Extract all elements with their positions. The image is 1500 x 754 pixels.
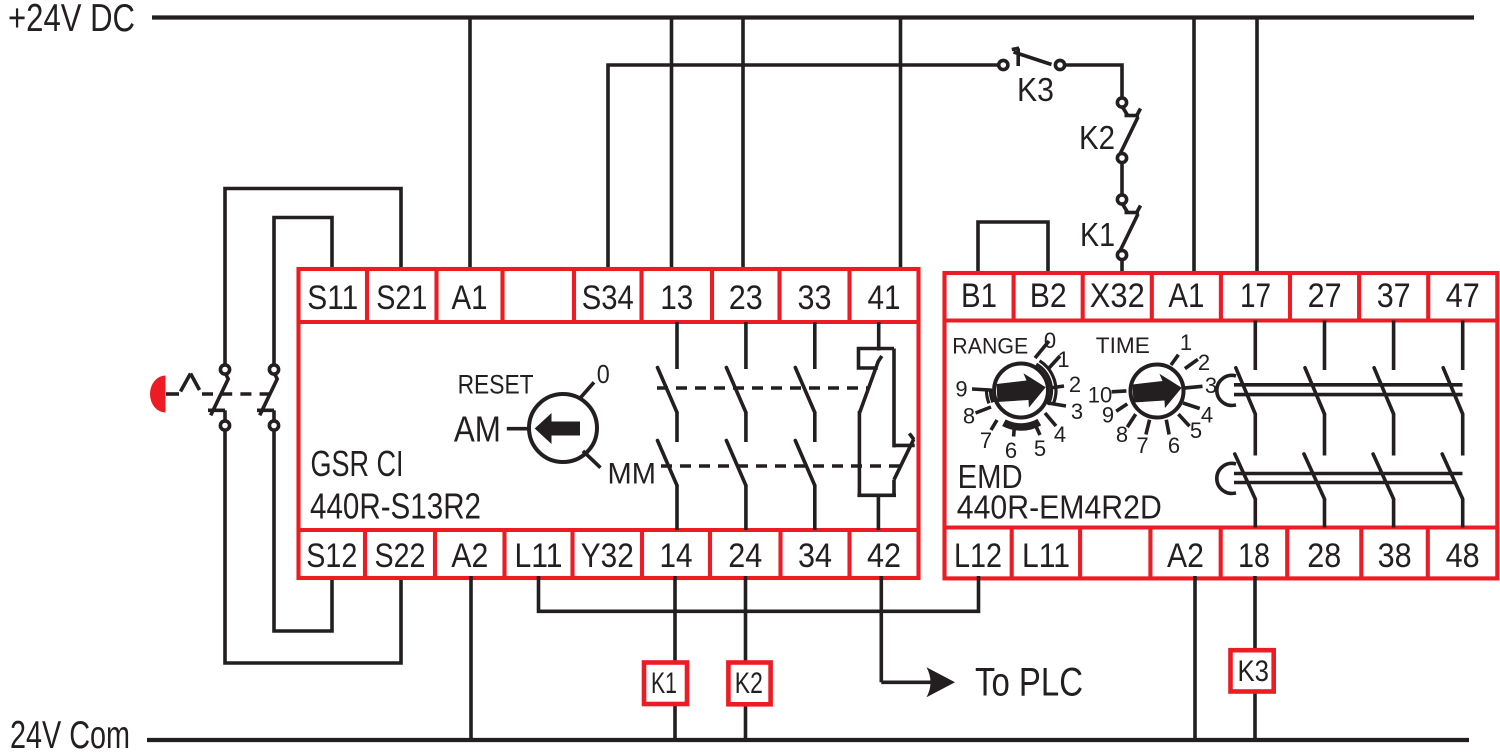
- svg-text:37: 37: [1377, 277, 1411, 315]
- svg-text:MM: MM: [608, 457, 656, 490]
- svg-text:9: 9: [955, 377, 967, 402]
- relay module GSR CI 440R-S13R2 outline: [299, 269, 919, 578]
- wire K2 to K1: [1120, 163, 1124, 196]
- contact 23-24 (NO safety output): [726, 322, 746, 530]
- svg-text:1: 1: [1057, 347, 1069, 372]
- svg-text:42: 42: [867, 537, 901, 575]
- svg-text:S21: S21: [376, 279, 427, 317]
- svg-text:X32: X32: [1090, 277, 1145, 315]
- svg-text:K3: K3: [1017, 71, 1054, 108]
- e-stop contact 2 (NC, channel 2): [257, 365, 279, 430]
- wire rail to GSR A1: [468, 18, 472, 272]
- wire To PLC arrow: [881, 667, 955, 697]
- svg-text:8: 8: [963, 404, 975, 429]
- svg-text:2: 2: [1069, 372, 1081, 397]
- svg-text:10: 10: [1088, 383, 1112, 408]
- svg-text:B2: B2: [1030, 277, 1067, 315]
- wire e-stop ch1 bottom to S22: [225, 430, 401, 663]
- svg-text:23: 23: [729, 279, 763, 317]
- svg-text:+24V DC: +24V DC: [8, 0, 135, 40]
- svg-text:GSR CI: GSR CI: [311, 443, 404, 484]
- svg-text:A1: A1: [1168, 277, 1204, 315]
- svg-text:34: 34: [798, 537, 832, 575]
- svg-text:L12: L12: [954, 537, 1002, 575]
- rotary switch RESET dial: [507, 382, 601, 467]
- svg-text:5: 5: [1190, 418, 1202, 443]
- wire K1 to X32: [1120, 260, 1124, 276]
- wire mechanical linkage row 1 (dashed): [657, 386, 869, 390]
- wire 24 to K2 coil: [744, 576, 748, 664]
- svg-text:13: 13: [660, 279, 693, 317]
- wire delay linkage row 1 (double line + arc): [1217, 375, 1463, 405]
- wire rail to EMD terminal 17: [1255, 18, 1259, 276]
- wire rail to EMD A1: [1192, 18, 1196, 276]
- contact 41-42 (NC aux, linked): [857, 322, 914, 530]
- svg-text:K1: K1: [1080, 216, 1115, 253]
- svg-text:RANGE: RANGE: [952, 334, 1028, 359]
- contact 47-48 (delayed NO output): [1442, 321, 1463, 528]
- wire delay linkage row 2 (double line + arc): [1217, 463, 1463, 493]
- svg-text:6: 6: [1168, 433, 1180, 458]
- e-stop contact 1 (NC, channel 1): [208, 365, 230, 430]
- rotary dial RANGE: [972, 341, 1066, 437]
- contact K3 (NC, aux of relay K3): [999, 48, 1065, 69]
- svg-text:24V Com: 24V Com: [10, 714, 130, 754]
- svg-text:S12: S12: [306, 537, 357, 575]
- svg-text:S34: S34: [582, 279, 634, 317]
- wire K3 to K2: [1065, 65, 1123, 98]
- svg-text:38: 38: [1378, 537, 1412, 575]
- contact 13-14 (NO safety output): [658, 322, 678, 530]
- wire 24V Com return rail: [147, 738, 1469, 742]
- contact K2 (NC, aux of relay K2): [1117, 98, 1140, 163]
- relay coil K1: [644, 663, 687, 705]
- wire rail to GSR terminal 41: [899, 18, 903, 271]
- wire 42 to PLC: [879, 576, 883, 682]
- contact K1 (NC, aux of relay K1): [1117, 195, 1140, 260]
- svg-text:3: 3: [1071, 399, 1083, 424]
- svg-text:48: 48: [1446, 537, 1480, 575]
- wire 14 to K1 coil: [673, 576, 677, 664]
- svg-text:7: 7: [1136, 433, 1148, 458]
- wire K1 coil to 24V Com: [673, 703, 677, 741]
- relay coil K3: [1231, 650, 1274, 691]
- svg-text:TIME: TIME: [1096, 333, 1150, 358]
- wire mechanical linkage row 2 (dashed): [661, 464, 902, 468]
- wire EMD A2 to 24V Com: [1193, 576, 1197, 740]
- svg-text:K2: K2: [735, 667, 763, 700]
- wire 18 to K3 coil: [1253, 576, 1257, 652]
- svg-text:B1: B1: [961, 277, 997, 315]
- svg-text:4: 4: [1054, 422, 1066, 447]
- wire K3 coil to 24V Com: [1253, 690, 1257, 740]
- wire rail to GSR terminal 13: [670, 18, 674, 271]
- wire B1-B2 bridge: [978, 222, 1048, 275]
- wire L11 to L12 link: [539, 576, 979, 611]
- wire +24V DC supply rail: [152, 15, 1474, 19]
- contact 37-38 (delayed NO output): [1373, 321, 1394, 528]
- wire e-stop ch2 bottom to S12: [274, 430, 332, 631]
- svg-text:47: 47: [1446, 277, 1480, 315]
- relay module EMD 440R-EM4R2D outline: [945, 273, 1498, 578]
- svg-text:A2: A2: [1167, 537, 1204, 575]
- svg-text:AM: AM: [454, 409, 501, 450]
- svg-text:4: 4: [1201, 403, 1213, 428]
- contact 17-18 (delayed NO output): [1235, 321, 1256, 528]
- svg-text:41: 41: [868, 279, 901, 317]
- rotary dial TIME: [1112, 355, 1203, 435]
- relay coil K2: [728, 663, 770, 705]
- svg-text:L11: L11: [515, 537, 563, 575]
- svg-text:A2: A2: [451, 537, 488, 575]
- svg-text:S11: S11: [307, 279, 358, 317]
- svg-text:14: 14: [660, 537, 693, 575]
- svg-text:1: 1: [1180, 330, 1192, 355]
- svg-text:33: 33: [798, 279, 832, 317]
- wire rail to GSR terminal 23: [741, 18, 745, 271]
- svg-text:27: 27: [1308, 277, 1342, 315]
- svg-text:5: 5: [1034, 436, 1046, 461]
- wire K2 coil to 24V Com: [744, 703, 748, 741]
- svg-text:24: 24: [728, 537, 762, 575]
- svg-text:Y32: Y32: [581, 537, 634, 575]
- svg-text:8: 8: [1116, 422, 1128, 447]
- svg-text:K3: K3: [1238, 655, 1270, 688]
- svg-text:3: 3: [1205, 373, 1217, 398]
- svg-text:440R-S13R2: 440R-S13R2: [310, 486, 481, 527]
- svg-text:K1: K1: [651, 667, 677, 700]
- contact 27-28 (delayed NO output): [1304, 321, 1325, 528]
- svg-text:0: 0: [1044, 328, 1056, 353]
- svg-text:0: 0: [597, 359, 610, 389]
- svg-text:S22: S22: [375, 537, 426, 575]
- svg-text:RESET: RESET: [458, 369, 534, 399]
- svg-text:L11: L11: [1022, 537, 1070, 575]
- svg-text:17: 17: [1240, 277, 1271, 315]
- wire e-stop ch2 top to S11: [274, 218, 332, 366]
- e-stop mechanical linkage (dashed): [166, 374, 272, 395]
- wire GSR A2 to 24V Com: [469, 576, 473, 740]
- svg-text:440R-EM4R2D: 440R-EM4R2D: [957, 488, 1162, 525]
- svg-text:28: 28: [1307, 537, 1341, 575]
- e-stop mushroom button: [150, 376, 166, 413]
- svg-text:2: 2: [1198, 350, 1210, 375]
- svg-text:To PLC: To PLC: [975, 661, 1083, 705]
- svg-text:6: 6: [1005, 438, 1017, 463]
- contact 33-34 (NO safety output): [795, 322, 815, 530]
- svg-text:18: 18: [1238, 537, 1270, 575]
- svg-text:7: 7: [980, 428, 992, 453]
- wire S34 riser: [608, 65, 999, 270]
- wire e-stop ch1 top to S21: [225, 189, 401, 366]
- svg-text:K2: K2: [1079, 119, 1115, 156]
- svg-text:A1: A1: [452, 279, 488, 317]
